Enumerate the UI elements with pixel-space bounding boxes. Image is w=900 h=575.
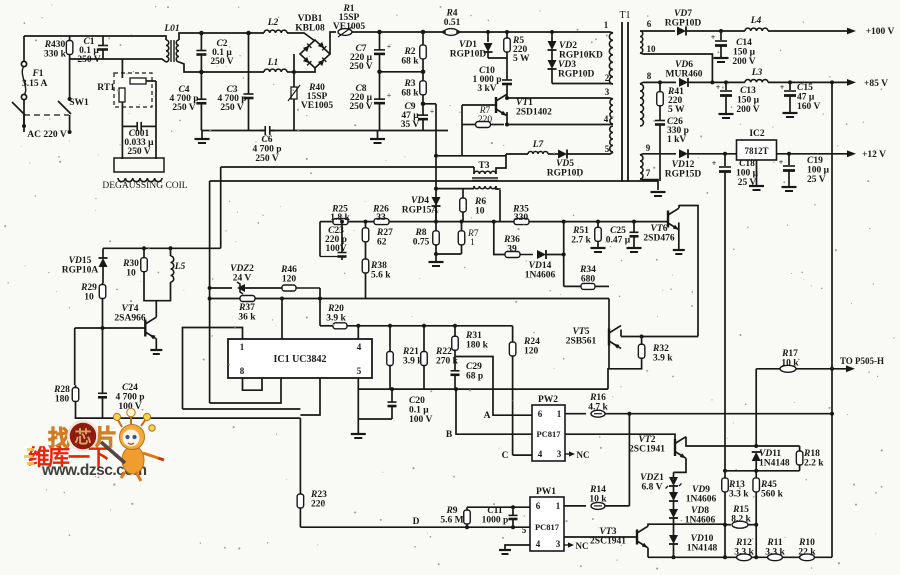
svg-text:VD9: VD9 bbox=[692, 485, 710, 495]
svg-text:R51: R51 bbox=[572, 226, 589, 236]
label C23 220p 100V bbox=[325, 226, 347, 254]
label VD5 RGP10D bbox=[547, 159, 584, 179]
svg-text:R17: R17 bbox=[781, 349, 798, 359]
svg-text:VT5: VT5 bbox=[573, 327, 590, 337]
svg-text:VDZ1: VDZ1 bbox=[640, 473, 664, 483]
resistor R45 bbox=[753, 469, 760, 499]
svg-text:250 V: 250 V bbox=[77, 55, 100, 65]
drive transformer T3 bbox=[472, 171, 498, 189]
junction R34 branch bbox=[562, 220, 566, 224]
wire - C23 left leg bbox=[319, 222, 321, 257]
wire - R46 to lower rail bbox=[319, 288, 321, 299]
junction C13 bbox=[724, 80, 728, 84]
wire - IC1 pin4 feed bbox=[357, 326, 359, 339]
svg-text:L5: L5 bbox=[174, 262, 186, 272]
label R35 330 bbox=[512, 205, 529, 224]
label R1 15SP VE1005 bbox=[333, 4, 365, 32]
wire - R45 junction down to bottom rail bbox=[755, 525, 757, 558]
svg-text:1: 1 bbox=[604, 20, 609, 30]
label R32 3.9k bbox=[652, 344, 673, 364]
svg-text:200 V: 200 V bbox=[732, 57, 755, 67]
svg-text:3.15 A: 3.15 A bbox=[22, 79, 47, 89]
label C29 68p bbox=[466, 362, 483, 382]
diode VD6 bbox=[679, 78, 745, 87]
degaussing coil winding bbox=[118, 178, 162, 182]
svg-text:R13: R13 bbox=[728, 480, 745, 490]
label R7 220 bbox=[478, 106, 493, 125]
thermistor RT1 dashed box bbox=[114, 73, 152, 107]
capacitor C24 bbox=[98, 328, 107, 418]
svg-text:6.8 V: 6.8 V bbox=[642, 483, 663, 493]
svg-text:47 μ: 47 μ bbox=[797, 93, 815, 103]
diode VD1 bbox=[484, 32, 493, 58]
label VD15 RGP10A bbox=[62, 256, 99, 276]
label R46 120 bbox=[280, 265, 297, 285]
label C25 0.47u bbox=[606, 226, 631, 246]
svg-text:0.47 μ: 0.47 μ bbox=[606, 236, 631, 246]
svg-text:R29: R29 bbox=[80, 283, 97, 293]
wire - RT1 to lower rail bbox=[121, 59, 123, 78]
junction B branch bbox=[454, 387, 458, 391]
capacitor C13 electrolytic bbox=[716, 82, 732, 114]
svg-text:VD8: VD8 bbox=[691, 506, 709, 516]
svg-text:IC1 UC3842: IC1 UC3842 bbox=[273, 354, 326, 365]
vertical link upper mid rail bbox=[220, 167, 222, 248]
svg-text:NC: NC bbox=[576, 541, 589, 551]
wire - degauss right vertical bbox=[155, 81, 157, 159]
resistor R27 bbox=[362, 220, 369, 248]
inductor L4 bbox=[745, 28, 768, 31]
svg-text:10: 10 bbox=[475, 207, 485, 217]
inductor L7 bbox=[506, 152, 548, 155]
svg-text:7: 7 bbox=[646, 168, 651, 178]
wire - VD1/R5 node bbox=[488, 57, 507, 59]
T1 primary winding 1-2 bbox=[604, 32, 613, 84]
bottom rail of input stage bbox=[202, 130, 448, 132]
svg-text:4.7 k: 4.7 k bbox=[588, 403, 608, 413]
svg-text:L01: L01 bbox=[163, 24, 179, 34]
resistor R41 snubber bbox=[657, 82, 664, 115]
svg-text:R15: R15 bbox=[732, 505, 749, 515]
svg-text:VD14: VD14 bbox=[529, 261, 552, 271]
svg-text:R37: R37 bbox=[238, 303, 255, 313]
T1 secondary winding 8 bbox=[640, 82, 644, 126]
wire - R18 top row bbox=[756, 445, 799, 447]
diode VD3 bbox=[548, 50, 557, 84]
zener chain VDZ1 bbox=[666, 472, 682, 488]
svg-text:+85 V: +85 V bbox=[864, 79, 888, 89]
fuse F1 bbox=[21, 61, 26, 99]
wire - base net down bbox=[461, 125, 463, 156]
junction R3 C9 bbox=[421, 102, 426, 107]
junction pin6 rail bbox=[280, 297, 284, 301]
label R13 3.3k bbox=[728, 480, 749, 500]
ground - input rail right bbox=[370, 131, 385, 144]
wire - VD11 bottom row bbox=[725, 470, 800, 472]
svg-text:330: 330 bbox=[514, 213, 529, 223]
dashed mechanical link of SW1 bbox=[24, 114, 69, 116]
wire - link down to R14 bbox=[628, 414, 630, 506]
svg-text:10 k: 10 k bbox=[781, 359, 799, 369]
wire - T3 top-left lead bbox=[473, 167, 475, 174]
wire - R17 row to P505 bbox=[756, 365, 855, 372]
wire - PW1 out to VT3 base bbox=[564, 536, 637, 538]
svg-text:VT3: VT3 bbox=[600, 527, 617, 537]
svg-text:120: 120 bbox=[524, 347, 539, 357]
IC2 7812 box bbox=[737, 140, 777, 160]
wire - R45 to R15 row bbox=[755, 499, 757, 525]
junction top rail C7 bbox=[377, 30, 382, 35]
label VT3 2SC1941 bbox=[590, 527, 626, 547]
resistor R26 bbox=[374, 219, 389, 225]
svg-text:250 V: 250 V bbox=[172, 103, 195, 113]
label C24 4700p 100V bbox=[115, 383, 144, 412]
diode VD5 bbox=[548, 150, 604, 159]
transistor VT4 bbox=[145, 301, 156, 349]
svg-text:R20: R20 bbox=[327, 304, 344, 314]
label VD9 1N4606 bbox=[686, 485, 717, 505]
label R20 3.9k bbox=[326, 304, 346, 324]
svg-text:AC 220 V: AC 220 V bbox=[27, 130, 67, 140]
capacitor C9 electrolytic bbox=[418, 104, 435, 131]
label VT1 2SD1402 bbox=[516, 98, 552, 118]
svg-text:RT1: RT1 bbox=[97, 83, 115, 93]
junction pin4 rail bbox=[356, 324, 360, 328]
resistor R35 bbox=[514, 219, 529, 225]
svg-text:5.6 k: 5.6 k bbox=[371, 271, 391, 281]
label R27 62 bbox=[376, 228, 393, 248]
svg-text:100 V: 100 V bbox=[409, 415, 432, 425]
label C18 100u 25V bbox=[736, 159, 759, 188]
svg-text:1N4148: 1N4148 bbox=[759, 459, 790, 469]
svg-text:MUR460: MUR460 bbox=[666, 70, 703, 80]
zener VDZ2 row bbox=[210, 282, 282, 294]
svg-text:+: + bbox=[716, 83, 721, 92]
ground - C15 bbox=[783, 113, 798, 117]
svg-text:4: 4 bbox=[604, 114, 609, 124]
svg-text:2SC1941: 2SC1941 bbox=[629, 445, 665, 455]
transistor VT5 bbox=[609, 326, 621, 349]
svg-text:R36: R36 bbox=[503, 235, 520, 245]
svg-text:TO P505-H: TO P505-H bbox=[840, 356, 884, 366]
svg-text:150 μ: 150 μ bbox=[737, 96, 760, 106]
wire - VD4 anode rail junction bbox=[435, 198, 437, 222]
varistor R40 bbox=[288, 72, 300, 131]
junction VD4 on rail bbox=[434, 220, 438, 224]
capacitor C14 electrolytic bbox=[711, 31, 727, 58]
svg-text:+: + bbox=[430, 107, 435, 116]
svg-text:36 k: 36 k bbox=[238, 313, 256, 323]
svg-text:4: 4 bbox=[357, 342, 362, 352]
ground - C14 bbox=[714, 58, 729, 62]
IC1 UC3842 box bbox=[228, 339, 372, 378]
label R14 10k bbox=[589, 485, 607, 505]
svg-text:L7: L7 bbox=[532, 140, 545, 150]
svg-text:5: 5 bbox=[357, 366, 362, 376]
label VD3 RGP10D bbox=[558, 60, 595, 80]
wire - R17 feed vertical bbox=[755, 369, 757, 446]
wire - R34 branch vertical bbox=[563, 222, 565, 287]
wire - PW2 right to VT2 base bbox=[565, 434, 675, 441]
junction R32 top bbox=[640, 335, 644, 339]
label R30 10 bbox=[122, 259, 139, 279]
svg-text:R38: R38 bbox=[370, 261, 387, 271]
capacitor C6 series in ground rail bbox=[260, 126, 275, 135]
svg-text:SW1: SW1 bbox=[69, 98, 89, 108]
svg-text:C19: C19 bbox=[807, 156, 823, 166]
svg-text:39: 39 bbox=[507, 245, 517, 255]
svg-text:250 V: 250 V bbox=[349, 62, 372, 72]
resistor R16 bbox=[591, 410, 605, 417]
wire - lower rail L01 to L1 bbox=[190, 71, 264, 73]
svg-text:L4: L4 bbox=[750, 16, 762, 26]
inductor L1 bbox=[264, 69, 287, 72]
wire - VD7 to L4 bbox=[718, 30, 745, 32]
svg-text:2: 2 bbox=[605, 73, 610, 83]
svg-text:0.75: 0.75 bbox=[413, 238, 430, 248]
svg-text:VD1: VD1 bbox=[459, 40, 477, 50]
diode VD10 bbox=[669, 518, 678, 557]
switch SW1 pole left bbox=[12, 102, 25, 115]
resistor R46 bbox=[282, 285, 320, 291]
label R18 2.2k bbox=[803, 449, 824, 469]
wire - C10 to collector node bbox=[506, 90, 508, 97]
label R40 15SP VE1005 bbox=[301, 83, 333, 111]
svg-text:33: 33 bbox=[376, 213, 386, 223]
label VD8 1N4606 bbox=[685, 506, 716, 526]
transistor VT6 bbox=[668, 205, 679, 249]
wire - degauss left vertical bbox=[121, 126, 123, 159]
diode VD9 bbox=[669, 486, 678, 501]
svg-text:68 k: 68 k bbox=[401, 57, 419, 67]
svg-text:VD12: VD12 bbox=[672, 160, 695, 170]
T1 secondary winding 6-10 bbox=[640, 31, 643, 54]
resistor R22 bbox=[421, 324, 428, 389]
svg-text:250 V: 250 V bbox=[349, 102, 372, 112]
svg-text:25 V: 25 V bbox=[738, 178, 757, 188]
junction VD14 end bbox=[562, 253, 566, 257]
label R28 180 bbox=[53, 385, 70, 405]
label VD6 MUR460 bbox=[666, 60, 703, 80]
wire - T3 bottom-right lead bbox=[496, 186, 500, 200]
ground - C25 bbox=[627, 248, 642, 252]
capacitor C001 in degauss loop bbox=[122, 122, 156, 131]
svg-text:+: + bbox=[387, 42, 392, 51]
capacitor C7 electrolytic bbox=[374, 32, 392, 72]
resistor R430 bbox=[66, 36, 73, 59]
svg-text:100 μ: 100 μ bbox=[807, 166, 830, 176]
junction D rail C11 bbox=[511, 525, 515, 529]
bridge rectifier VDB1 bbox=[300, 40, 330, 68]
label C4 4700p 250V bbox=[169, 85, 198, 113]
svg-text:3: 3 bbox=[556, 539, 561, 549]
label R24 120 bbox=[523, 337, 540, 357]
wire - T3 right down to rail bbox=[499, 200, 501, 222]
resistor R2 bbox=[420, 32, 427, 72]
resistor R7b value 1 bbox=[458, 220, 465, 254]
diode VD8 bbox=[669, 501, 678, 518]
svg-text:PW1: PW1 bbox=[536, 487, 556, 497]
svg-text:C14: C14 bbox=[736, 38, 752, 48]
svg-text:R45: R45 bbox=[760, 480, 777, 490]
wire - VT6 collector over to VT5 collector bbox=[679, 206, 698, 337]
svg-text:VT1: VT1 bbox=[516, 98, 533, 108]
svg-text:VD3: VD3 bbox=[558, 60, 576, 70]
junction right sense line bbox=[830, 80, 834, 84]
wire - pin7 area stub bbox=[300, 378, 320, 415]
svg-text:R24: R24 bbox=[523, 337, 540, 347]
capacitor C11 bbox=[509, 505, 518, 527]
wire - B branch bbox=[456, 389, 532, 434]
resistor R5 bbox=[504, 32, 511, 58]
resistor R25 bbox=[333, 219, 348, 225]
bottom feedback rail with R12 R11 R10 bbox=[648, 554, 832, 561]
svg-text:6: 6 bbox=[538, 409, 543, 419]
wire - C9 feed to T3/L7 node bbox=[436, 155, 506, 157]
label R7 1 bbox=[467, 229, 479, 248]
svg-text:DEGAUSSING COIL: DEGAUSSING COIL bbox=[102, 181, 187, 191]
svg-text:VT2: VT2 bbox=[639, 435, 656, 445]
junction bottom rail VD10 bbox=[672, 555, 676, 559]
label R11 3.3k bbox=[765, 538, 785, 558]
junction R15 right bbox=[754, 523, 758, 527]
svg-text:R34: R34 bbox=[579, 265, 596, 275]
junction R36 branch bbox=[492, 220, 496, 224]
wire - upper row to VD15 bbox=[103, 247, 221, 249]
transistor VT2 bbox=[675, 437, 686, 459]
wire - C26 down to ground rail bbox=[659, 130, 661, 181]
capacitor C4 bbox=[196, 70, 206, 131]
capacitor C20 bbox=[358, 387, 396, 419]
label VD1 RGP10D bbox=[450, 40, 487, 60]
junction bottom rail R45 bbox=[754, 555, 758, 559]
junction VDZ2 left bbox=[208, 286, 212, 290]
svg-text:680: 680 bbox=[581, 275, 596, 285]
svg-text:+: + bbox=[712, 159, 717, 168]
feedback rail from pin5 area bbox=[358, 388, 608, 390]
svg-text:C18: C18 bbox=[739, 159, 755, 169]
wire - left column down bbox=[74, 328, 76, 385]
label C14 150u 200V bbox=[732, 38, 755, 67]
label C7 220u 250V bbox=[349, 44, 372, 72]
resistor R4 fusible bbox=[442, 29, 460, 36]
junction R16 right column bbox=[830, 412, 834, 416]
svg-text:+: + bbox=[387, 91, 392, 100]
IC2 ground pin bbox=[749, 160, 764, 190]
svg-text:1000 p: 1000 p bbox=[482, 516, 509, 526]
capacitor C1 bbox=[98, 36, 108, 59]
svg-text:4: 4 bbox=[536, 539, 541, 549]
svg-text:VD4: VD4 bbox=[411, 196, 429, 206]
wire - L2 to bridge bbox=[287, 33, 315, 41]
capacitor C3 bbox=[244, 31, 254, 131]
wire - VT5 base feed bbox=[608, 299, 610, 345]
svg-text:10: 10 bbox=[647, 44, 657, 54]
svg-text:C15: C15 bbox=[797, 83, 813, 93]
label R5 220 5W bbox=[512, 36, 530, 64]
resistor R38 bbox=[362, 248, 369, 299]
label C8 220u 250V bbox=[349, 84, 372, 112]
wire - T3 top-right lead to L7 node bbox=[496, 154, 506, 174]
+12V rail: pin9 to VD12 bbox=[643, 153, 676, 155]
optocoupler PW2 box bbox=[532, 405, 565, 461]
diode VD14 bbox=[537, 250, 564, 259]
label R51 2.7k bbox=[571, 226, 591, 246]
long control rail bbox=[210, 298, 609, 300]
svg-text:T3: T3 bbox=[478, 161, 489, 171]
svg-text:VT4: VT4 bbox=[122, 304, 139, 314]
svg-text:2.7 k: 2.7 k bbox=[571, 236, 591, 246]
svg-text:R430: R430 bbox=[44, 40, 66, 50]
svg-text:2.2 k: 2.2 k bbox=[804, 459, 824, 469]
resistor R7 220 horizontal bbox=[462, 122, 504, 128]
wire - VT5 collector row bbox=[621, 336, 698, 338]
label R31 180k bbox=[465, 331, 489, 351]
svg-text:R23: R23 bbox=[310, 490, 327, 500]
svg-text:C11: C11 bbox=[487, 506, 503, 516]
+100V rail: pin6 to VD7 bbox=[643, 30, 675, 32]
wire - R9/C11 top row bbox=[467, 506, 530, 508]
svg-text:RGP10D: RGP10D bbox=[547, 169, 584, 179]
PW1 NC stub bbox=[564, 541, 589, 551]
junction R16/R14 link bbox=[627, 412, 631, 416]
label C26 330p 1kV bbox=[667, 117, 689, 145]
junction R41 top bbox=[658, 80, 662, 84]
label R23 220 bbox=[310, 490, 327, 510]
wire - L3 to +85V arrow bbox=[768, 79, 856, 86]
wire - inner loop bottom bbox=[210, 378, 281, 403]
capacitor C29 bbox=[451, 357, 460, 390]
wire - R32 bottom row bbox=[608, 366, 642, 389]
svg-text:35 V: 35 V bbox=[401, 120, 420, 130]
label R430 330k bbox=[44, 40, 67, 60]
resistor R17 bbox=[780, 365, 796, 372]
junction D rail R9 bbox=[465, 525, 469, 529]
svg-text:RGP15A: RGP15A bbox=[402, 206, 439, 216]
svg-text:1: 1 bbox=[240, 342, 245, 352]
label VDZ2 24V bbox=[230, 264, 254, 284]
svg-text:3: 3 bbox=[557, 449, 562, 459]
svg-text:PW2: PW2 bbox=[538, 395, 558, 405]
svg-text:RGP10D: RGP10D bbox=[450, 50, 487, 60]
svg-text:R8: R8 bbox=[414, 228, 426, 238]
svg-text:B: B bbox=[446, 430, 453, 440]
resistor R51 bbox=[595, 220, 602, 247]
svg-text:3.9 k: 3.9 k bbox=[653, 354, 673, 364]
wire - C18 node down the +12V feed column bbox=[724, 154, 726, 471]
svg-text:KBL08: KBL08 bbox=[295, 24, 325, 34]
svg-text:芯: 芯 bbox=[75, 427, 92, 447]
vertical link lower mid rail long bbox=[209, 181, 211, 328]
junction R20 rail bbox=[318, 297, 322, 301]
label R25 1.8k bbox=[330, 205, 350, 224]
svg-text:C24: C24 bbox=[122, 383, 138, 393]
svg-text:D: D bbox=[413, 517, 420, 527]
svg-text:1 kV: 1 kV bbox=[667, 135, 686, 145]
wire - R8/R7 bottom row bbox=[436, 253, 462, 255]
inductor L5 bbox=[169, 246, 174, 282]
degaussing coil box bbox=[114, 158, 164, 172]
svg-text:3: 3 bbox=[605, 87, 610, 97]
label C6 4700p 250V bbox=[252, 135, 281, 164]
junction rail left bbox=[208, 297, 212, 301]
svg-text:0.1 μ: 0.1 μ bbox=[409, 406, 429, 416]
wire - node to C10 bbox=[506, 58, 508, 74]
svg-text:VD10: VD10 bbox=[691, 534, 714, 544]
svg-text:F1: F1 bbox=[31, 69, 43, 79]
wire - top rail AC to L01 bbox=[24, 35, 157, 37]
wire - VT3 collector row bbox=[648, 524, 725, 526]
